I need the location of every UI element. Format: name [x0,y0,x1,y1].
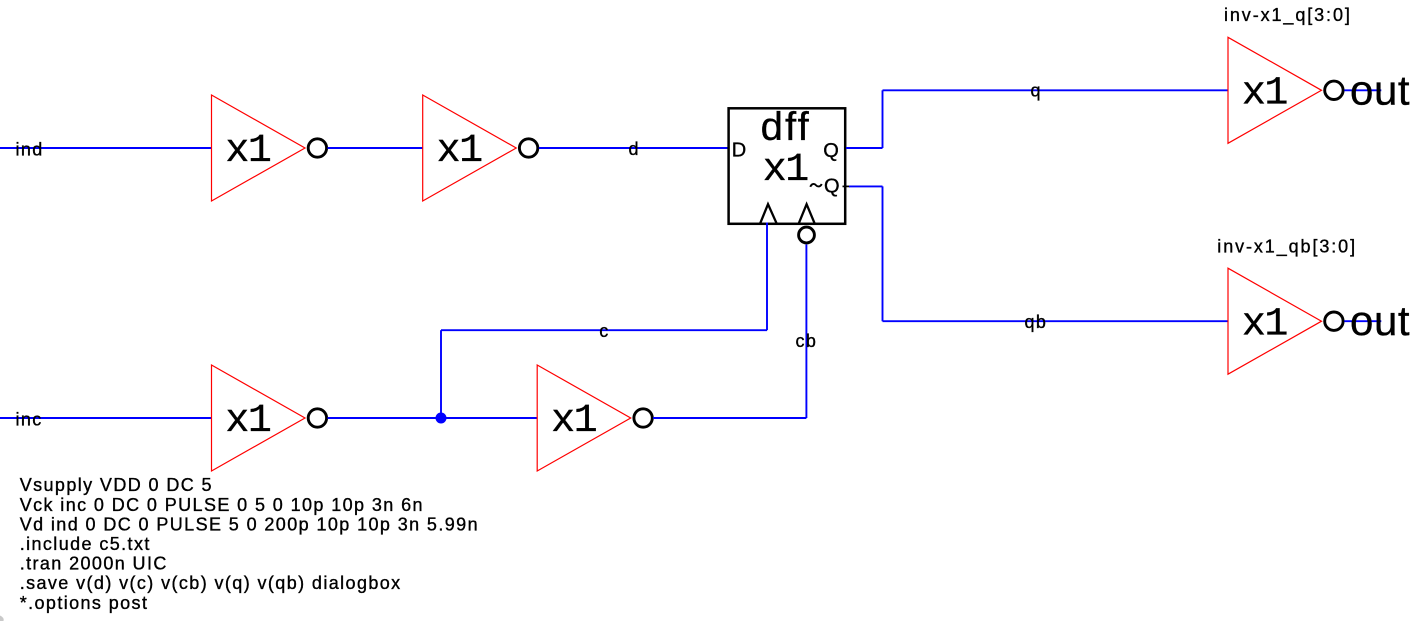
dff U1 box [729,108,846,224]
wire net inc [0,417,212,419]
wire out (qb side) [1344,320,1381,322]
wire net d [539,147,729,149]
svg-text:.include c5.txt: .include c5.txt [20,534,151,554]
svg-text:dff: dff [761,105,811,149]
wire inverter1 out to inverter2 in [328,147,423,149]
svg-text:qb: qb [1025,312,1048,332]
svg-text:Vd ind 0 DC 0 PULSE 5 0 200p 1: Vd ind 0 DC 0 PULSE 5 0 200p 10p 10p 3n … [20,514,479,534]
svg-text:*.options post: *.options post [20,593,149,613]
inverter x1 (bottom middle) [537,365,652,471]
wire net qb: horizontal [883,320,1229,322]
wire out (q side) [1344,89,1381,91]
junction dot [436,413,447,424]
wire net ind [0,147,212,149]
wire net c: vertical riser [440,330,442,418]
svg-text:out: out [1350,66,1410,113]
svg-text:inv-x1_q[3:0]: inv-x1_q[3:0] [1224,5,1352,26]
inverter x1 (output qb) [1228,268,1343,374]
svg-text:Vsupply VDD 0 DC 5: Vsupply VDD 0 DC 5 [20,475,213,495]
svg-text:d: d [629,139,640,159]
wire net c horizontal bottom [328,417,538,419]
wire net q: horizontal [883,89,1229,91]
inverter x1 (top second) [423,95,538,201]
wire net cb: horizontal [653,417,806,419]
pin stub ~Q (black) [843,185,851,187]
svg-text:out: out [1350,297,1410,344]
wire net c: vertical to clock pin [766,223,768,331]
clock pin triangle 1 [760,204,777,224]
svg-text:Q: Q [824,176,840,198]
dff inverted clock bubble [799,227,815,243]
svg-text:c: c [599,321,609,341]
pin ~Q [810,184,821,187]
inverter x1 (output q) [1228,37,1343,143]
inverter x1 (top-left, input ind) [212,95,327,201]
corner artifact [0,616,4,621]
svg-text:inc: inc [16,409,43,429]
wire net q: Q stub [846,147,883,149]
svg-text:x1: x1 [763,148,809,193]
svg-text:ind: ind [16,139,44,159]
svg-text:D: D [732,140,746,162]
svg-text:inv-x1_qb[3:0]: inv-x1_qb[3:0] [1217,237,1357,258]
wire net cb: vertical [805,245,807,419]
svg-text:.tran 2000n UIC: .tran 2000n UIC [20,554,168,574]
wire net qb: vertical [882,186,884,321]
svg-text:q: q [1031,81,1042,101]
svg-text:Vck inc 0 DC 0 PULSE 0 5 0 10p: Vck inc 0 DC 0 PULSE 0 5 0 10p 10p 3n 6n [20,495,424,515]
svg-text:.save v(d) v(c) v(cb) v(q) v(q: .save v(d) v(c) v(cb) v(q) v(qb) dialogb… [20,573,402,593]
clock pin triangle 2 [799,204,815,224]
inverter x1 (bottom-left, input inc) [212,365,327,471]
wire net q: vertical [882,90,884,148]
svg-text:cb: cb [796,331,818,351]
wire net qb: stub [849,185,883,187]
svg-text:Q: Q [823,140,839,162]
wire net c: horizontal [441,329,767,331]
